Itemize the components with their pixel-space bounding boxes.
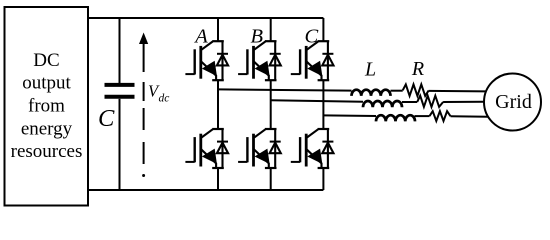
IGBT Q3 (leg B upper) with diode — [238, 41, 281, 80]
phase C wire R3 to grid — [451, 115, 489, 118]
leg B bottom wire — [270, 168, 272, 190]
svg-text:from: from — [28, 96, 65, 117]
bottom DC rail wire — [88, 189, 323, 191]
leg C upper drop wire — [322, 18, 324, 41]
capacitor C1 top plate — [105, 83, 135, 87]
IGBT Q4 (leg A lower) with diode — [185, 129, 228, 168]
svg-text:L: L — [364, 59, 376, 81]
grid circle — [484, 74, 541, 131]
label: DC output from energy resources — [11, 50, 83, 162]
leg B mid wire — [270, 80, 272, 129]
resistor R1 — [403, 84, 429, 96]
svg-text:output: output — [22, 73, 71, 94]
resistor R2 — [417, 96, 443, 107]
svg-text:Grid: Grid — [495, 91, 532, 113]
inductor L3 — [376, 115, 415, 121]
top DC rail wire — [88, 17, 323, 19]
inductor L1 — [352, 90, 391, 96]
svg-text:C: C — [304, 25, 318, 47]
capacitor C1 bottom plate — [105, 95, 135, 99]
svg-text:B: B — [251, 25, 264, 47]
svg-text:C: C — [98, 105, 115, 132]
phase A wire R1 to grid — [429, 90, 486, 93]
DC source box — [5, 7, 89, 206]
Vdc dashed reference arrow — [143, 43, 145, 164]
svg-text:energy: energy — [21, 118, 73, 139]
svg-text:resources: resources — [11, 141, 83, 162]
capacitor C1 top wire — [119, 18, 121, 83]
phase A wire to filter — [218, 89, 352, 90]
leg C bottom wire — [322, 168, 324, 190]
svg-text:DC: DC — [33, 50, 59, 71]
leg B upper drop wire — [270, 18, 272, 41]
phase C wire to filter — [323, 114, 376, 117]
resistor R3 — [430, 111, 451, 121]
phase B wire to filter — [271, 100, 363, 102]
phase B wire R2 to grid — [443, 101, 484, 103]
IGBT Q1 (leg A upper) with diode — [185, 41, 228, 80]
phase A wire L1 to R1 — [391, 90, 403, 92]
inductor L2 — [363, 101, 402, 107]
IGBT Q2 (leg C lower) with diode — [291, 129, 334, 168]
leg A upper drop wire — [217, 18, 219, 41]
leg A mid wire — [217, 80, 219, 129]
IGBT Q5 (leg C upper) with diode — [291, 41, 334, 80]
phase B wire L2 to R2 — [402, 101, 417, 103]
leg A bottom wire — [217, 168, 219, 190]
svg-text:A: A — [193, 25, 208, 47]
IGBT Q6 (leg B lower) with diode — [238, 129, 281, 168]
leg C mid wire — [322, 80, 324, 129]
svg-text:dc: dc — [159, 93, 170, 105]
phase C wire L3 to R3 — [415, 115, 430, 117]
capacitor C1 bottom wire — [119, 99, 121, 190]
svg-text:R: R — [411, 58, 424, 80]
